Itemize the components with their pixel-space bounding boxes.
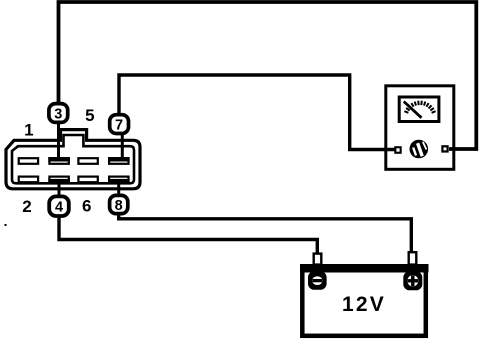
wire pin 3 badge to slot: [57, 122, 60, 160]
voltmeter U1 body: [386, 86, 454, 170]
wire from pin 3 to voltmeter right terminal: [59, 2, 477, 149]
svg-text:1: 1: [24, 121, 33, 140]
wire from pin 7 to voltmeter left terminal: [119, 75, 395, 150]
pin 2 slot: [19, 177, 38, 183]
battery - terminal: [308, 271, 327, 290]
battery - post: [314, 254, 322, 265]
voltmeter needle: [404, 102, 422, 118]
svg-text:12V: 12V: [342, 293, 386, 316]
svg-text:8: 8: [115, 198, 123, 214]
voltmeter scale ticks: [404, 101, 435, 113]
svg-text:2: 2: [22, 197, 31, 216]
svg-text:6: 6: [82, 196, 91, 215]
battery top band: [300, 264, 429, 273]
svg-text:3: 3: [54, 106, 62, 122]
node badge 7: [110, 115, 129, 134]
wire from pin 4 to battery - terminal: [59, 215, 317, 254]
pin 8 slot: [109, 177, 128, 183]
svg-text:7: 7: [115, 117, 123, 133]
wire from pin 8 to battery + terminal: [119, 212, 412, 253]
connector C1 outer shell: [6, 130, 140, 189]
pin 4 slot: [49, 177, 68, 183]
connector C1 inner shell: [12, 135, 134, 183]
pin 6 slot: [78, 177, 97, 183]
wire pin 8 badge to slot: [117, 181, 120, 196]
svg-text:4: 4: [55, 200, 63, 216]
battery + terminal: [403, 271, 422, 290]
node badge 8: [110, 195, 128, 213]
wire pin 4 badge to slot: [58, 181, 61, 197]
node badge 3: [49, 104, 68, 123]
battery + post: [409, 252, 417, 264]
pin 8 slot contact bar: [108, 179, 130, 183]
pin 3 slot contact bar: [48, 157, 70, 161]
pin 7 slot: [109, 158, 128, 164]
pin 7 slot contact bar: [108, 157, 130, 161]
pin 1 slot: [19, 158, 38, 164]
voltmeter display frame: [399, 97, 439, 122]
voltmeter right terminal: [441, 145, 448, 152]
voltmeter left terminal: [394, 146, 401, 154]
svg-text:5: 5: [85, 106, 94, 125]
voltmeter knob: [410, 140, 429, 159]
wire pin 7 badge to slot: [121, 133, 124, 160]
node badge 4: [49, 196, 69, 216]
pin 4 slot contact bar: [48, 179, 70, 183]
pin 3 slot: [49, 158, 68, 164]
battery BT1 body: [302, 266, 426, 336]
pin 5 slot: [78, 158, 97, 164]
